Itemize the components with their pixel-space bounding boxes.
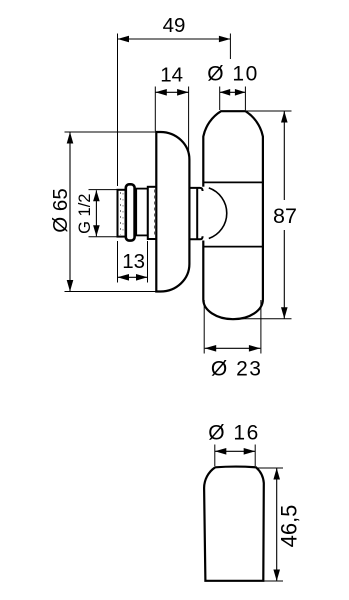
dim 49 ext left xyxy=(117,34,119,187)
neck cover xyxy=(191,187,206,241)
dim diameter 23 arrow left xyxy=(205,345,217,352)
dim G 1/2 arrow bottom xyxy=(93,225,100,236)
dim diameter 65 ext bottom xyxy=(65,291,157,293)
dim 87 arrow bottom xyxy=(281,307,288,319)
dim 49 ext right xyxy=(229,34,231,60)
neck bottom edge xyxy=(190,236,203,239)
spigot middle section xyxy=(136,189,148,236)
outlet cup outline xyxy=(204,467,264,581)
dim diameter 10 line xyxy=(220,91,246,93)
dim 46,5 arrow top xyxy=(273,468,280,480)
svg-text:Ø 16: Ø 16 xyxy=(208,422,260,445)
dim G 1/2 arrow top xyxy=(93,190,100,201)
dim diameter 23 line xyxy=(205,347,261,349)
dim 13 ext left xyxy=(117,241,119,283)
svg-text:Ø 10: Ø 10 xyxy=(207,63,259,86)
dim diameter 65 line xyxy=(69,132,71,292)
dim 87 ext top xyxy=(246,110,292,112)
dim 49 arrow left xyxy=(118,36,130,43)
dim 87 arrow top xyxy=(281,111,288,123)
dim 46,5 line xyxy=(276,468,278,581)
dim diameter 23 arrow right xyxy=(249,345,261,352)
dim diameter 65 arrow top xyxy=(67,132,74,144)
dim diameter 10 arrow right xyxy=(235,89,246,96)
svg-text:46,5: 46,5 xyxy=(277,505,302,548)
svg-text:49: 49 xyxy=(163,14,186,37)
dim G 1/2 line xyxy=(95,190,97,236)
dim 87 ext bottom xyxy=(233,318,292,320)
dim diameter 16 ext right xyxy=(254,445,256,467)
cap tube lower seam xyxy=(204,246,263,248)
spigot flange mark xyxy=(154,190,156,237)
svg-text:Ø 65: Ø 65 xyxy=(49,188,72,232)
dim diameter 23 ext left xyxy=(203,300,205,354)
svg-text:G 1/2: G 1/2 xyxy=(76,194,94,234)
dim diameter 65 ext top xyxy=(65,131,157,133)
dim diameter 16 arrow right xyxy=(244,448,256,455)
neck joint line xyxy=(196,188,198,239)
dim diameter 65 arrow bottom xyxy=(67,280,74,292)
dim 14 ext left xyxy=(154,87,156,132)
dim 46,5 ext bottom xyxy=(258,580,284,582)
svg-text:13: 13 xyxy=(122,250,145,273)
dim diameter 10 ext right xyxy=(244,87,246,111)
valve body outline xyxy=(156,132,189,292)
dim 46,5 ext top xyxy=(258,467,284,469)
dim diameter 16 ext left xyxy=(214,445,216,467)
dim 87 line lower xyxy=(283,230,285,319)
dim 13 ext right xyxy=(147,241,149,283)
dim 14 arrow left xyxy=(155,89,167,96)
cap tube upper seam xyxy=(204,181,263,183)
dim diameter 23 ext right xyxy=(260,300,262,354)
dim 14 line xyxy=(155,91,188,93)
svg-text:87: 87 xyxy=(273,204,297,228)
dim 14 ext right xyxy=(188,87,190,161)
dim diameter 16 arrow left xyxy=(215,448,227,455)
dim 13 arrow left xyxy=(118,274,130,281)
dim 49 line xyxy=(118,38,231,40)
spigot thread mark 1 xyxy=(120,192,122,235)
dim diameter 10 ext left xyxy=(219,87,221,111)
dim 87 line upper xyxy=(283,111,285,200)
spigot collar ring xyxy=(126,184,135,240)
spigot flange section xyxy=(148,187,157,239)
dim 46,5 arrow bottom xyxy=(273,570,280,582)
neck top edge xyxy=(190,188,203,191)
dim G 1/2 ext top xyxy=(89,189,118,191)
dim 49 arrow right xyxy=(219,36,231,43)
chrome cap tube outline xyxy=(203,111,263,319)
dim G 1/2 ext bottom xyxy=(89,236,118,238)
dim diameter 16 line xyxy=(215,450,255,452)
dim 13 arrow right xyxy=(136,274,148,281)
cartridge arc xyxy=(209,188,227,239)
svg-text:Ø 23: Ø 23 xyxy=(211,358,263,381)
dim 13 line xyxy=(118,276,148,278)
dim 14 arrow right xyxy=(177,89,189,96)
spigot thread mark 2 xyxy=(122,193,124,234)
svg-text:14: 14 xyxy=(160,64,183,87)
spigot thread section xyxy=(118,190,127,237)
dim diameter 10 arrow left xyxy=(220,89,231,96)
